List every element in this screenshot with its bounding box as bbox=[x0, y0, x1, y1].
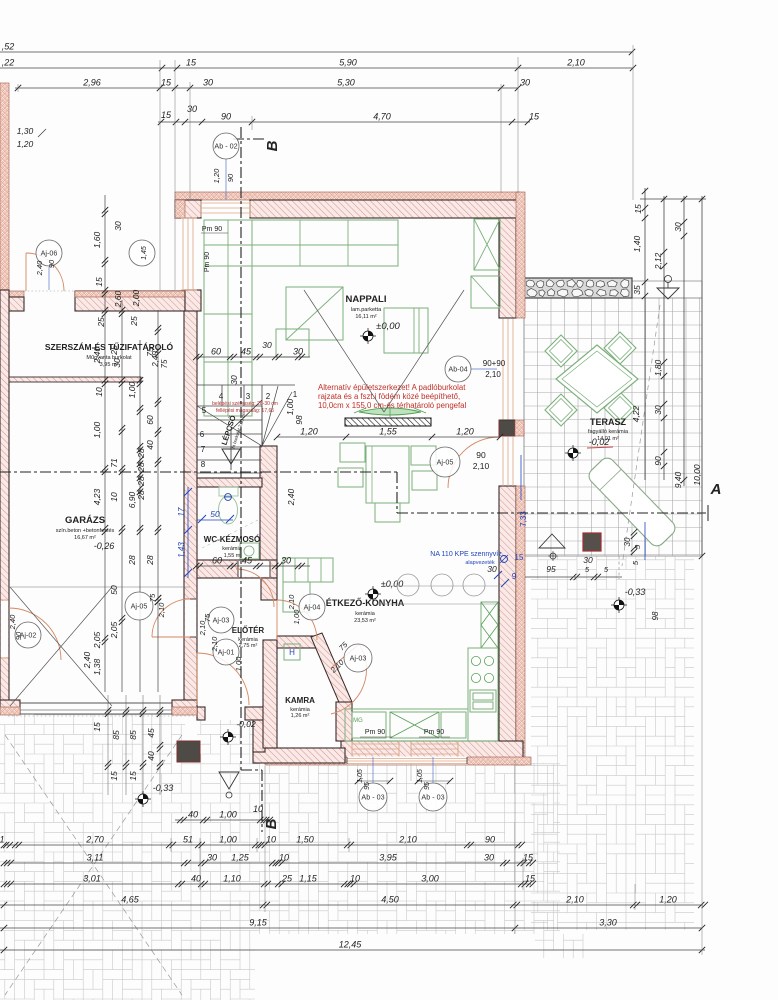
svg-text:1,80: 1,80 bbox=[653, 359, 663, 376]
svg-text:1,00: 1,00 bbox=[219, 835, 237, 845]
svg-text:98: 98 bbox=[651, 611, 660, 620]
svg-text:Pm 90: Pm 90 bbox=[202, 226, 222, 233]
svg-text:Pm 90: Pm 90 bbox=[204, 252, 211, 272]
svg-text:±0,00: ±0,00 bbox=[376, 321, 400, 332]
svg-text:40: 40 bbox=[191, 874, 201, 884]
svg-text:1,00: 1,00 bbox=[92, 421, 102, 438]
svg-text:1: 1 bbox=[0, 835, 5, 845]
svg-text:-0,02: -0,02 bbox=[236, 719, 256, 729]
svg-text:15: 15 bbox=[109, 771, 119, 781]
svg-text:2,10: 2,10 bbox=[157, 602, 166, 618]
svg-text:90: 90 bbox=[476, 450, 486, 460]
svg-text:5,30: 5,30 bbox=[337, 78, 355, 88]
svg-text:,22: ,22 bbox=[2, 58, 15, 68]
svg-text:1,26 m²: 1,26 m² bbox=[291, 713, 310, 719]
svg-text:95: 95 bbox=[424, 782, 431, 790]
svg-text:2,10: 2,10 bbox=[210, 636, 219, 652]
svg-text:KAMRA: KAMRA bbox=[285, 696, 315, 705]
svg-text:90: 90 bbox=[14, 631, 23, 640]
svg-text:30: 30 bbox=[187, 104, 197, 114]
svg-text:4: 4 bbox=[219, 392, 224, 401]
svg-text:30: 30 bbox=[520, 78, 530, 88]
svg-text:2,00: 2,00 bbox=[131, 289, 141, 307]
svg-text:Pm 90: Pm 90 bbox=[424, 729, 444, 736]
svg-text:2,05: 2,05 bbox=[92, 631, 102, 649]
svg-text:15: 15 bbox=[523, 853, 534, 863]
svg-text:NA 110 KPE szennyvíz: NA 110 KPE szennyvíz bbox=[430, 551, 502, 558]
svg-text:30: 30 bbox=[583, 555, 593, 565]
svg-text:2,05: 2,05 bbox=[109, 621, 119, 639]
svg-text:90+90: 90+90 bbox=[483, 359, 506, 368]
svg-text:4,65: 4,65 bbox=[121, 895, 140, 905]
svg-text:1,00: 1,00 bbox=[285, 398, 295, 415]
svg-text:1,30: 1,30 bbox=[17, 126, 34, 136]
svg-text:1,20: 1,20 bbox=[17, 139, 34, 149]
svg-text:16,67 m²: 16,67 m² bbox=[74, 535, 96, 541]
svg-text:Aj-03: Aj-03 bbox=[350, 654, 367, 663]
svg-text:-0,26: -0,26 bbox=[94, 541, 115, 551]
svg-text:25: 25 bbox=[281, 874, 293, 884]
svg-text:Aj-05: Aj-05 bbox=[437, 458, 454, 467]
svg-text:50: 50 bbox=[109, 585, 119, 595]
svg-text:35: 35 bbox=[632, 285, 642, 295]
svg-text:10: 10 bbox=[279, 853, 289, 863]
svg-text:1,00: 1,00 bbox=[292, 609, 301, 624]
svg-text:10: 10 bbox=[266, 835, 276, 845]
svg-text:95: 95 bbox=[364, 782, 371, 790]
svg-text:B: B bbox=[264, 140, 281, 151]
svg-text:1,45: 1,45 bbox=[141, 246, 148, 260]
svg-text:szín.beton +betonfestés: szín.beton +betonfestés bbox=[56, 528, 115, 534]
svg-text:85: 85 bbox=[111, 730, 121, 740]
svg-text:28: 28 bbox=[145, 555, 155, 566]
svg-text:50: 50 bbox=[210, 509, 220, 519]
svg-text:51: 51 bbox=[183, 835, 193, 845]
svg-text:1,15: 1,15 bbox=[299, 874, 318, 884]
svg-text:Ab - 03: Ab - 03 bbox=[361, 793, 384, 802]
svg-text:Pm 90: Pm 90 bbox=[365, 729, 385, 736]
svg-text:90: 90 bbox=[653, 456, 663, 466]
svg-text:±0,00: ±0,00 bbox=[381, 579, 403, 589]
svg-text:15: 15 bbox=[529, 112, 540, 122]
svg-text:SZERSZÁM-ÉS TŰZIFATÁROLÓ: SZERSZÁM-ÉS TŰZIFATÁROLÓ bbox=[45, 341, 174, 352]
svg-text:Aj-04: Aj-04 bbox=[304, 603, 321, 612]
svg-text:95: 95 bbox=[546, 564, 556, 574]
svg-text:5,90: 5,90 bbox=[339, 58, 357, 68]
svg-text:30: 30 bbox=[623, 537, 632, 546]
svg-text:1,50: 1,50 bbox=[296, 835, 314, 845]
svg-text:28: 28 bbox=[136, 490, 146, 501]
svg-text:9: 9 bbox=[512, 572, 517, 581]
svg-text:1,20: 1,20 bbox=[456, 427, 474, 437]
svg-text:2,10: 2,10 bbox=[566, 58, 585, 68]
svg-text:4,50: 4,50 bbox=[381, 895, 399, 905]
svg-text:2,75 m²: 2,75 m² bbox=[239, 643, 258, 649]
svg-text:H: H bbox=[289, 648, 295, 657]
svg-text:1,10: 1,10 bbox=[223, 874, 241, 884]
svg-text:75: 75 bbox=[148, 593, 157, 602]
svg-text:ÉTKEZŐ-KONYHA: ÉTKEZŐ-KONYHA bbox=[326, 597, 405, 608]
svg-text:30: 30 bbox=[207, 853, 217, 863]
svg-text:2,10: 2,10 bbox=[473, 461, 490, 471]
svg-text:75: 75 bbox=[160, 359, 169, 368]
svg-text:15: 15 bbox=[161, 78, 172, 88]
svg-text:2,60: 2,60 bbox=[113, 290, 123, 308]
svg-text:2: 2 bbox=[266, 392, 271, 401]
svg-text:-0,33: -0,33 bbox=[625, 587, 646, 597]
svg-text:60: 60 bbox=[211, 347, 221, 357]
svg-text:1: 1 bbox=[293, 390, 298, 399]
svg-text:30: 30 bbox=[293, 347, 303, 357]
svg-text:2,10: 2,10 bbox=[287, 594, 296, 610]
svg-text:1,00: 1,00 bbox=[234, 656, 243, 671]
svg-text:60: 60 bbox=[212, 556, 222, 566]
svg-text:2,96: 2,96 bbox=[82, 78, 101, 88]
svg-text:45: 45 bbox=[241, 347, 252, 357]
svg-text:3,00: 3,00 bbox=[421, 874, 439, 884]
svg-text:4,23: 4,23 bbox=[92, 488, 102, 505]
svg-text:1,60: 1,60 bbox=[92, 231, 102, 248]
svg-text:30: 30 bbox=[484, 853, 494, 863]
svg-text:71: 71 bbox=[109, 458, 119, 468]
svg-text:90: 90 bbox=[221, 112, 231, 122]
svg-text:15: 15 bbox=[515, 553, 524, 562]
svg-text:10: 10 bbox=[94, 387, 104, 397]
svg-text:10,00: 10,00 bbox=[692, 464, 702, 486]
svg-text:6: 6 bbox=[200, 430, 205, 439]
svg-text:Aj-06: Aj-06 bbox=[41, 249, 58, 258]
svg-text:1,00: 1,00 bbox=[127, 381, 137, 398]
svg-text:30: 30 bbox=[487, 564, 497, 574]
svg-text:2,70: 2,70 bbox=[85, 835, 104, 845]
svg-text:1,00: 1,00 bbox=[219, 810, 237, 820]
svg-text:30: 30 bbox=[281, 556, 291, 566]
svg-text:9,15: 9,15 bbox=[249, 918, 268, 928]
svg-text:40: 40 bbox=[145, 440, 155, 450]
svg-text:kerámia: kerámia bbox=[355, 611, 376, 617]
svg-text:Aj-05: Aj-05 bbox=[131, 602, 148, 611]
svg-text:8: 8 bbox=[201, 460, 206, 469]
svg-text:Ab - 03: Ab - 03 bbox=[421, 793, 444, 802]
svg-text:ELŐTÉR: ELŐTÉR bbox=[232, 626, 265, 635]
svg-text:10: 10 bbox=[253, 804, 263, 814]
svg-text:lam.parketta: lam.parketta bbox=[351, 307, 382, 313]
svg-text:30: 30 bbox=[229, 375, 239, 385]
svg-text:15: 15 bbox=[186, 58, 197, 68]
svg-text:1,25: 1,25 bbox=[231, 853, 250, 863]
svg-text:90: 90 bbox=[226, 173, 235, 182]
svg-text:10,0cm x 155,0 cm-és térhatáro: 10,0cm x 155,0 cm-és térhatároló pengefa… bbox=[318, 401, 466, 410]
svg-text:30: 30 bbox=[203, 78, 213, 88]
svg-text:TERASZ: TERASZ bbox=[590, 417, 627, 427]
svg-text:23,53 m²: 23,53 m² bbox=[354, 618, 376, 624]
svg-text:1,20: 1,20 bbox=[212, 168, 221, 183]
svg-text:7: 7 bbox=[201, 445, 206, 454]
svg-text:3,11: 3,11 bbox=[87, 853, 104, 863]
svg-text:1,55: 1,55 bbox=[379, 427, 398, 437]
svg-text:60: 60 bbox=[145, 415, 155, 425]
svg-text:1,38: 1,38 bbox=[92, 658, 102, 675]
svg-text:2,40: 2,40 bbox=[286, 488, 296, 506]
svg-text:1,05: 1,05 bbox=[417, 769, 424, 783]
svg-text:16,11 m²: 16,11 m² bbox=[355, 314, 376, 320]
svg-text:2,40: 2,40 bbox=[35, 260, 44, 276]
svg-text:1,55 m: 1,55 m bbox=[224, 553, 241, 559]
svg-text:45: 45 bbox=[242, 556, 253, 566]
svg-text:85: 85 bbox=[128, 730, 138, 740]
svg-text:28: 28 bbox=[136, 462, 146, 473]
svg-text:1,05: 1,05 bbox=[357, 769, 364, 783]
svg-text:2,10: 2,10 bbox=[565, 895, 584, 905]
svg-text:75: 75 bbox=[203, 613, 212, 622]
svg-text:Ab - 02: Ab - 02 bbox=[214, 142, 237, 151]
svg-text:1,43: 1,43 bbox=[177, 542, 186, 558]
svg-text:4,70: 4,70 bbox=[373, 112, 391, 122]
svg-text:28: 28 bbox=[136, 476, 146, 487]
svg-text:2,40: 2,40 bbox=[82, 651, 92, 669]
svg-text:15: 15 bbox=[92, 722, 102, 732]
svg-text:25: 25 bbox=[96, 317, 106, 328]
svg-text:belépési szélesség: 28-30 cm: belépési szélesség: 28-30 cm bbox=[212, 401, 278, 407]
svg-text:A: A bbox=[710, 481, 722, 498]
svg-text:15: 15 bbox=[94, 277, 104, 287]
svg-text:40: 40 bbox=[188, 810, 198, 820]
svg-text:7,33: 7,33 bbox=[519, 511, 528, 527]
svg-text:Aj-03: Aj-03 bbox=[213, 616, 230, 625]
svg-text:MG: MG bbox=[353, 718, 363, 724]
svg-text:10: 10 bbox=[350, 874, 360, 884]
svg-text:12,45: 12,45 bbox=[339, 940, 363, 950]
svg-text:98: 98 bbox=[294, 415, 304, 425]
svg-text:15: 15 bbox=[525, 874, 536, 884]
svg-text:1,20: 1,20 bbox=[300, 427, 318, 437]
svg-text:4,22: 4,22 bbox=[631, 405, 641, 422]
svg-text:3,95: 3,95 bbox=[379, 853, 398, 863]
svg-text:fagyálló kerámia: fagyálló kerámia bbox=[588, 429, 629, 435]
svg-text:15: 15 bbox=[633, 204, 643, 214]
svg-text:fellépési magasság: 17,65: fellépési magasság: 17,65 bbox=[216, 408, 274, 414]
svg-text:5: 5 bbox=[202, 406, 207, 415]
svg-text:25: 25 bbox=[129, 316, 139, 327]
svg-text:WC-KÉZMOSÓ: WC-KÉZMOSÓ bbox=[204, 535, 260, 544]
svg-text:30: 30 bbox=[673, 222, 683, 232]
svg-text:3,30: 3,30 bbox=[599, 918, 617, 928]
svg-text:2,40: 2,40 bbox=[8, 614, 17, 630]
svg-text:-0,02: -0,02 bbox=[589, 437, 610, 447]
svg-text:15: 15 bbox=[128, 771, 138, 781]
svg-text:3,95 m²: 3,95 m² bbox=[100, 362, 119, 368]
svg-text:GARÁZS: GARÁZS bbox=[65, 515, 105, 526]
svg-text:30: 30 bbox=[653, 405, 663, 415]
svg-text:1,20: 1,20 bbox=[659, 895, 677, 905]
svg-text:90: 90 bbox=[485, 835, 495, 845]
svg-text:kerámia: kerámia bbox=[222, 546, 243, 552]
svg-text:Aj-01: Aj-01 bbox=[218, 648, 235, 657]
svg-text:2,40: 2,40 bbox=[151, 351, 160, 368]
svg-text:90: 90 bbox=[47, 259, 56, 268]
svg-text:,52: ,52 bbox=[2, 42, 15, 52]
svg-text:40: 40 bbox=[146, 751, 156, 761]
svg-text:-0,33: -0,33 bbox=[153, 783, 174, 793]
svg-text:2,10: 2,10 bbox=[398, 835, 417, 845]
svg-text:rajzata és a fszt.i födém közé: rajzata és a fszt.i födém közé beépíthet… bbox=[318, 392, 460, 401]
svg-text:Ab-04: Ab-04 bbox=[448, 365, 467, 374]
svg-text:2,10: 2,10 bbox=[485, 370, 501, 379]
svg-text:17: 17 bbox=[177, 507, 186, 516]
svg-text:28: 28 bbox=[127, 555, 137, 566]
svg-text:Alternatív épületszerkezet! A: Alternatív épületszerkezet! A padlóburko… bbox=[318, 383, 466, 392]
svg-text:3: 3 bbox=[246, 392, 251, 401]
svg-text:1,40: 1,40 bbox=[632, 235, 642, 252]
svg-text:2,12: 2,12 bbox=[653, 252, 663, 270]
svg-text:9,40: 9,40 bbox=[673, 471, 683, 488]
svg-text:30: 30 bbox=[113, 221, 123, 231]
svg-text:Műgyanta burkolat: Műgyanta burkolat bbox=[86, 355, 132, 361]
svg-text:NAPPALI: NAPPALI bbox=[346, 294, 387, 305]
svg-text:45: 45 bbox=[146, 728, 156, 738]
svg-text:30: 30 bbox=[262, 340, 272, 350]
svg-text:15: 15 bbox=[161, 110, 172, 120]
svg-text:3,01: 3,01 bbox=[83, 874, 101, 884]
svg-text:10: 10 bbox=[109, 492, 119, 502]
